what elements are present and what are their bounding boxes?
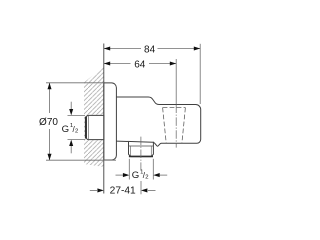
wall face line	[103, 44, 105, 194]
svg-text:G: G	[62, 124, 69, 135]
svg-text:64: 64	[134, 60, 146, 71]
inlet stub thread line	[88, 116, 90, 139]
centre axis of outlet stub (dash-dot)	[140, 137, 142, 171]
svg-text:2: 2	[75, 128, 78, 134]
svg-text:G: G	[132, 170, 139, 181]
dimension 84	[104, 44, 200, 104]
dimension G1/2 inlet (vertical arrows)	[68, 102, 86, 154]
holder arm / body outline	[116, 97, 200, 146]
dimension 27-41	[90, 181, 156, 194]
dimension G1/2 outlet (horizontal arrows)	[116, 159, 168, 180]
inlet stub thick thread-end edge	[85, 117, 87, 138]
svg-text:84: 84	[144, 45, 156, 56]
svg-text:Ø70: Ø70	[39, 117, 58, 128]
dimension 64	[104, 59, 176, 104]
handshower cone (phantom, dashed)	[163, 108, 186, 144]
flange (wall plate, side view)	[104, 83, 117, 160]
outlet stub thread minor lines	[130, 146, 132, 156]
dimension Ø70	[46, 83, 116, 160]
svg-text:2: 2	[145, 175, 148, 181]
inlet thread stub G1/2 (in wall)	[85, 115, 103, 139]
svg-text:27-41: 27-41	[110, 185, 136, 196]
centre axis of handshower cone (dash-dot)	[175, 105, 177, 148]
outlet stub chamfer line	[129, 145, 154, 147]
outlet stub bottom edge (thick)	[129, 155, 153, 157]
outlet thread stub G1/2 (pointing down)	[129, 142, 154, 157]
wall section hatching	[84, 60, 104, 186]
